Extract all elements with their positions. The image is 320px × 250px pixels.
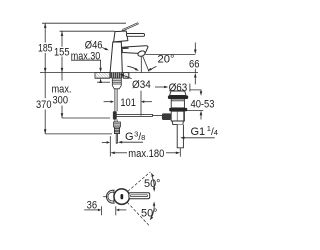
arrow down 185 bottom at counter xyxy=(44,68,47,73)
pop-up pull rod vertical xyxy=(115,89,117,112)
nipple thread lines xyxy=(114,129,119,132)
waste neck lip line xyxy=(171,100,184,102)
svg-text:20°: 20° xyxy=(158,53,175,65)
supply hose vertical xyxy=(115,120,117,123)
lever swing dashed ray upper xyxy=(128,172,151,192)
dim 36 left arrowhead xyxy=(98,209,101,212)
dim G3/8 arrowhead left xyxy=(118,141,122,144)
water stream line vertical xyxy=(140,56,142,72)
dim 101 left arrowhead xyxy=(111,100,114,103)
angle arc right with arrowhead xyxy=(151,66,157,69)
waste locking ring dark band xyxy=(169,108,187,111)
dim Ø46 arrowhead xyxy=(105,48,109,51)
svg-text:66: 66 xyxy=(189,59,200,71)
faucet shank dark block xyxy=(110,73,122,79)
dim 36 extension line left xyxy=(101,206,103,215)
opposing arrow at rod axis xyxy=(102,141,107,143)
arrow down 370 bottom xyxy=(44,129,47,134)
svg-text:155: 155 xyxy=(54,46,70,58)
dim max.30 arrow down xyxy=(99,68,102,73)
svg-text:300: 300 xyxy=(53,94,69,106)
dim max180 line right + arrowhead xyxy=(166,152,176,154)
lever swing dashed ray lower xyxy=(127,202,149,226)
dim max.30 arrow up below deck xyxy=(99,78,102,83)
reference line B (top of cartridge cap) xyxy=(60,30,115,32)
nut band lines xyxy=(112,80,121,84)
supply nipple thread xyxy=(114,127,119,134)
dim 101 right extension line xyxy=(140,91,142,116)
dim 101 line left xyxy=(104,101,111,103)
waste bottom ring nut xyxy=(172,121,183,125)
dimension line 185/370 vertical xyxy=(44,23,46,134)
deck hatched right piece xyxy=(124,73,129,79)
arrow up 40-53 bottom xyxy=(200,111,203,116)
spout xyxy=(122,46,148,54)
svg-text:max.30: max.30 xyxy=(71,50,101,62)
dim 36 line right xyxy=(119,209,126,211)
dim 101 line right xyxy=(144,101,152,103)
waste tailpipe xyxy=(177,125,183,148)
dimension line 155/max300 vertical xyxy=(61,31,63,118)
arrow up 185 top xyxy=(44,23,47,28)
lever rod horizontal xyxy=(126,34,144,37)
lever plan inner slot xyxy=(130,195,148,197)
pull rod clamp xyxy=(113,111,117,119)
dim max180 left extension line xyxy=(109,136,111,156)
nipple tail xyxy=(116,134,117,144)
arrow down 155 bottom at counter xyxy=(61,68,64,73)
dim Ø63 right extension line xyxy=(189,84,191,92)
svg-text:40-53: 40-53 xyxy=(191,98,215,110)
dim 36 line left xyxy=(84,209,98,211)
arrow up 66 bottom xyxy=(194,73,197,78)
svg-text:370: 370 xyxy=(36,99,52,111)
deck hatched left piece xyxy=(95,73,110,79)
dim Ø63 left arrow line xyxy=(155,86,165,88)
dim max180 line left + arrowhead xyxy=(115,152,127,154)
linkage thin right section xyxy=(153,114,163,116)
dim Ø34 arrowhead xyxy=(120,74,124,77)
aerator nub xyxy=(137,50,146,57)
arrow up 155 top xyxy=(61,31,64,36)
waste ball-joint knob xyxy=(162,113,171,120)
lever raised phantom xyxy=(122,23,139,32)
spout plan left tick xyxy=(103,196,107,198)
mounting nut xyxy=(112,78,121,89)
spout plan inner line xyxy=(113,190,115,203)
body plan outer circle xyxy=(114,189,130,205)
spout plan inner arc xyxy=(108,192,114,201)
dim Ø63 elbow to 40-53 arrow xyxy=(190,90,201,92)
arrow down 66 top xyxy=(194,50,197,55)
angle arc left with arrowhead xyxy=(127,66,136,69)
arc arrow upper xyxy=(152,176,154,188)
svg-text:50°: 50° xyxy=(144,178,161,190)
svg-text:max.180: max.180 xyxy=(128,148,164,160)
waste plug cap xyxy=(170,91,186,96)
svg-text:101: 101 xyxy=(120,97,135,109)
waste flange Ø63 dark band xyxy=(168,96,188,100)
svg-text:Ø34: Ø34 xyxy=(132,79,151,91)
arc arrow lower xyxy=(152,205,155,217)
dim 101 right arrowhead xyxy=(141,100,144,103)
deck bottom edge right xyxy=(124,77,129,79)
dim 40-53 bottom line xyxy=(185,109,204,111)
arrow down max300 bottom xyxy=(61,113,64,118)
dimension 66 vertical xyxy=(194,43,196,85)
dim 36 extension line right xyxy=(115,206,117,215)
dim G3/8 leader underline xyxy=(122,141,143,143)
cartridge cap xyxy=(114,31,128,42)
arrow down 40-53 top xyxy=(200,91,203,96)
dim max.30 leader underline xyxy=(71,60,101,68)
faucet body xyxy=(110,42,122,73)
pop-up linkage rod horizontal xyxy=(114,114,152,116)
max300 bottom reference line xyxy=(62,117,110,119)
dim max180 right extension line xyxy=(179,148,181,156)
spout outlet reference line xyxy=(145,54,195,56)
dim 36 right arrowhead xyxy=(116,209,119,212)
text Ø34 with white backing xyxy=(131,77,153,89)
waste neck upper body xyxy=(171,99,184,108)
waste lower body xyxy=(171,111,184,121)
dim Ø34 leader xyxy=(123,75,131,78)
deck bottom edge left xyxy=(95,77,110,79)
dim G1 1/4 arrowhead xyxy=(180,137,184,140)
lever plan bar xyxy=(129,193,150,199)
dim 40-53 bottom tail xyxy=(200,115,202,120)
dim Ø46 leader xyxy=(102,48,106,50)
370 bottom reference line xyxy=(45,133,112,135)
svg-text:50°: 50° xyxy=(141,208,158,220)
shank stripes xyxy=(112,73,120,79)
deck right end edge xyxy=(128,73,130,79)
water stream line 20deg xyxy=(143,56,149,71)
spout end plan D-shape xyxy=(106,190,114,203)
supply nipple hex xyxy=(114,122,121,127)
spout joint shadow line xyxy=(123,47,129,49)
body plan center dot xyxy=(121,194,124,199)
counter top reference line xyxy=(40,72,198,74)
dim Ø63 left arrowhead xyxy=(164,86,168,89)
waste body inner pipe lines xyxy=(177,111,183,121)
reference line A (top of raised lever) xyxy=(42,22,126,24)
svg-text:185: 185 xyxy=(38,43,53,55)
dim G1 1/4 leader underline xyxy=(185,137,215,139)
